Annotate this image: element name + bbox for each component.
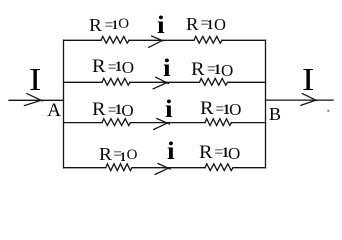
node B (269, 104, 281, 125)
label: R=10 branch 1 left (89, 15, 102, 36)
label: R=10 branch 2 right (191, 59, 205, 81)
resistor R=10 (branch 3 left) (102, 119, 131, 126)
label: R=10 branch 2 left (92, 56, 106, 78)
wire: branch 2 middle (130, 81, 200, 83)
resistor R=10 (branch 4 left) (106, 164, 132, 171)
arrowhead: branch 3 current i (157, 119, 170, 125)
arrowhead: branch 1 current i (152, 36, 164, 41)
arrowhead: output current I (302, 94, 317, 101)
wire: branch 2 right lead (228, 81, 266, 83)
label: R=10 branch 1 right (186, 14, 199, 35)
wire: right bus (node B vertical rail) (265, 40, 267, 167)
label: current i branch 4 (167, 138, 175, 166)
arrowhead: branch 2 current i (156, 77, 169, 83)
label: current i branch 2 (163, 55, 171, 83)
junction dot (stray mark near B) (327, 110, 329, 112)
wire: branch 1 middle (129, 39, 194, 41)
label: R=10 branch 3 right (200, 98, 214, 120)
wire: branch 3 middle (131, 122, 206, 124)
wire: branch 1 right lead (222, 39, 266, 41)
wire: input feed to node A (9, 99, 64, 101)
label: current i branch 3 (165, 96, 173, 124)
label: input current I (29, 61, 41, 98)
wire: branch 1 left lead (64, 39, 102, 41)
wire: branch 4 left lead (64, 167, 106, 169)
wire: branch 2 left lead (64, 81, 103, 83)
label: output current I (302, 61, 314, 98)
resistor R=10 (branch 2 left) (102, 78, 130, 85)
label: R=10 branch 3 left (92, 99, 106, 121)
wire: branch 4 right lead (233, 167, 266, 169)
label: current i branch 1 (157, 12, 165, 40)
arrowhead: input current I (27, 94, 43, 101)
wire: branch 3 right lead (232, 122, 266, 124)
arrowhead: branch 4 current i (158, 164, 170, 170)
node A (47, 100, 61, 122)
resistor R=10 (branch 1 right) (194, 36, 222, 43)
label: R=10 branch 4 left (99, 144, 112, 165)
wire: output feed from node B (266, 99, 334, 101)
wire: left bus (node A vertical rail) (63, 40, 65, 167)
resistor R=10 (branch 2 right) (200, 78, 228, 85)
resistor R=10 (branch 3 right) (205, 119, 232, 126)
resistor R=10 (branch 4 right) (205, 164, 233, 171)
wire: branch 3 left lead (64, 122, 103, 124)
resistor R=10 (branch 1 left) (101, 36, 129, 43)
wire: branch 4 middle (132, 167, 205, 169)
label: R=10 branch 4 right (199, 142, 213, 164)
